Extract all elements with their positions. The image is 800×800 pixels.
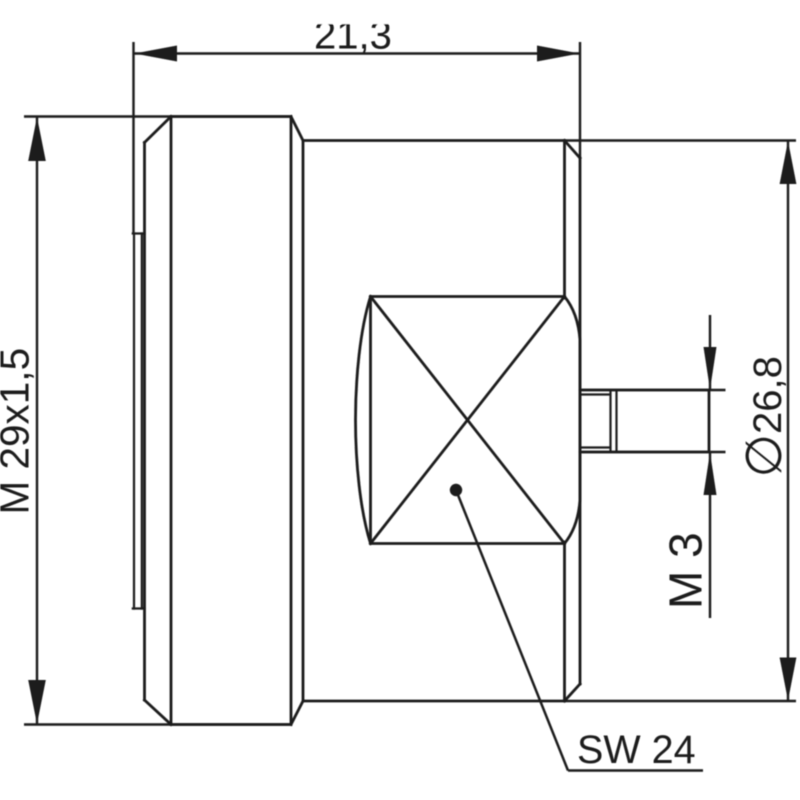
- body cylinder D26.8: [303, 141, 565, 702]
- body right chamfer top: [565, 141, 581, 159]
- dim D26.8 extension top: [565, 139, 797, 141]
- hex left silhouette arc: [356, 297, 371, 544]
- dim M29 extension top: [24, 115, 291, 117]
- hex X diagonal 1: [371, 297, 565, 544]
- svg-text:SW 24: SW 24: [577, 728, 696, 772]
- hex right silhouette arc: [565, 297, 581, 544]
- dim M3 extension lines: [582, 390, 726, 452]
- SW24 underline: [568, 769, 703, 772]
- dim D26.8 extension bottom: [565, 700, 797, 702]
- svg-text:M 3: M 3: [660, 532, 712, 609]
- svg-text:∅26,8: ∅26,8: [736, 356, 792, 477]
- arrow dim D26.8 bottom: [780, 658, 797, 701]
- arrow dim M3 bottom (outside pointing up): [704, 453, 717, 496]
- nut chamfer edge (front face circle): [170, 117, 173, 725]
- body right chamfer bottom: [565, 684, 581, 701]
- M3 stud thread core lines: [581, 395, 610, 448]
- leader dot on hex face: [450, 484, 462, 496]
- body right edge verticals: [563, 141, 566, 702]
- clip band over top of 21,3 text: [0, 0, 800, 24]
- arrow dim 21,3 right: [537, 46, 580, 62]
- dim D26.8 line: [787, 141, 789, 702]
- M3 stud: [580, 390, 709, 452]
- dim M29 extension bottom: [24, 723, 291, 725]
- arrow dim M3 top (outside pointing down): [704, 347, 717, 390]
- body right face: [579, 158, 582, 684]
- leader line SW24: [456, 490, 568, 771]
- dim 21,3 extension left: [132, 42, 134, 234]
- M3 stud collar: [611, 391, 617, 451]
- arrow dim D26.8 top: [780, 141, 797, 184]
- coupling nut M29 outline: [145, 117, 292, 725]
- hex X diagonal 2: [371, 297, 565, 544]
- knurl slot on nut front: [133, 234, 145, 609]
- arrow dim M29 bottom: [28, 680, 46, 724]
- arrow dim 21,3 left: [135, 46, 178, 62]
- dim 21,3 extension right: [579, 42, 581, 158]
- hex SW24 flat box: [371, 297, 565, 544]
- dim M3 line segments: [709, 315, 711, 618]
- svg-text:M 29x1,5: M 29x1,5: [0, 348, 38, 515]
- nut right step chamfer top: [291, 117, 303, 141]
- dim M29 line: [36, 117, 38, 725]
- arrow dim M29 top: [28, 117, 46, 161]
- nut right step chamfer bottom: [291, 701, 303, 725]
- dim 21,3 line: [135, 52, 580, 54]
